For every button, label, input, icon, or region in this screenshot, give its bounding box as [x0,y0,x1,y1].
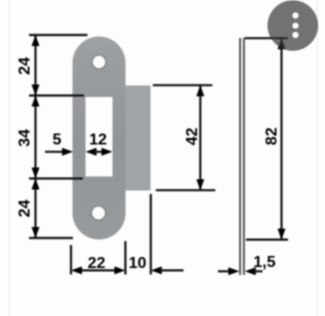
faint right border line [317,0,318,316]
svg-text:12: 12 [89,132,107,149]
arrow up at plate top [32,35,40,46]
dimension 22: right arrow [114,266,125,274]
strike plate front view: plate body (stadium) [73,37,126,240]
svg-text:34: 34 [17,129,34,147]
dimension 12: line inside cutout [94,151,104,153]
svg-text:10: 10 [129,255,147,272]
arrow down at cutout top [32,85,40,96]
dimension 82: top extension line [245,37,288,39]
extension line below plate right edge [124,241,126,275]
dimension 22: left arrow [71,266,82,274]
extension line bottom (plate bottom) [29,237,73,239]
svg-text:42: 42 [184,128,201,146]
arrow down at cutout bottom [32,168,40,179]
dimension 1,5: left tail [218,270,231,272]
extension line top (plate top) [29,34,88,36]
dimension 10: left arrow at lip edge [151,266,162,274]
dimension 22: line [79,269,117,271]
side view: left face line [239,38,241,275]
arrow up below cutout top [32,96,40,107]
dimension 42: bottom extension line [156,189,216,191]
svg-text:22: 22 [88,255,106,272]
extension line below plate left edge [70,245,72,275]
dimension 82: vertical line [280,38,282,239]
svg-text:24: 24 [17,57,34,75]
dimension 10: tail line right [160,269,184,271]
menu button circle [268,0,319,51]
screw hole bottom [91,206,105,220]
latch cutout (white rectangle) [86,97,113,177]
arrow up below cutout bottom [32,179,40,190]
dimension 42: top extension line [153,84,212,86]
menu dot bottom [292,32,298,38]
dimension 82: bottom extension line [246,239,288,241]
svg-text:5: 5 [53,132,62,149]
dimension 42: arrow down [196,179,204,190]
dimension 12: right-pointing arrow at cutout right edge [102,148,113,156]
menu dot middle [292,23,298,29]
dimension 5: tail line left [45,151,64,153]
extension line below lip right edge [150,194,152,275]
faint left border line [9,0,10,316]
screw hole top [92,55,106,69]
side view: plate profile interior [239,38,244,275]
dimension 42: vertical line [199,85,201,190]
extension line at cutout top [29,94,84,96]
dimension 1,5: left-pointing arrow [245,267,256,275]
svg-text:24: 24 [17,200,34,218]
dimension 5: right-pointing arrow at plate left edge [62,148,73,156]
dimension 82: arrow up [278,38,286,49]
dimension 82: arrow down [278,229,286,240]
extension line at cutout bottom [29,177,83,179]
svg-text:1,5: 1,5 [253,254,275,271]
dimension 42: arrow up [196,85,204,96]
strike plate front view: lip tab [126,86,151,191]
left vertical dimension line [34,35,36,238]
dimension 5/12: left-pointing arrow at cutout left edge [86,148,97,156]
svg-text:82: 82 [264,127,281,145]
dimension 1,5: right tail [254,270,263,272]
dimension 1,5: right-pointing arrow [228,267,239,275]
arrow down at plate bottom [32,227,40,238]
menu dot top [292,12,298,18]
side view: right face line [243,38,245,275]
